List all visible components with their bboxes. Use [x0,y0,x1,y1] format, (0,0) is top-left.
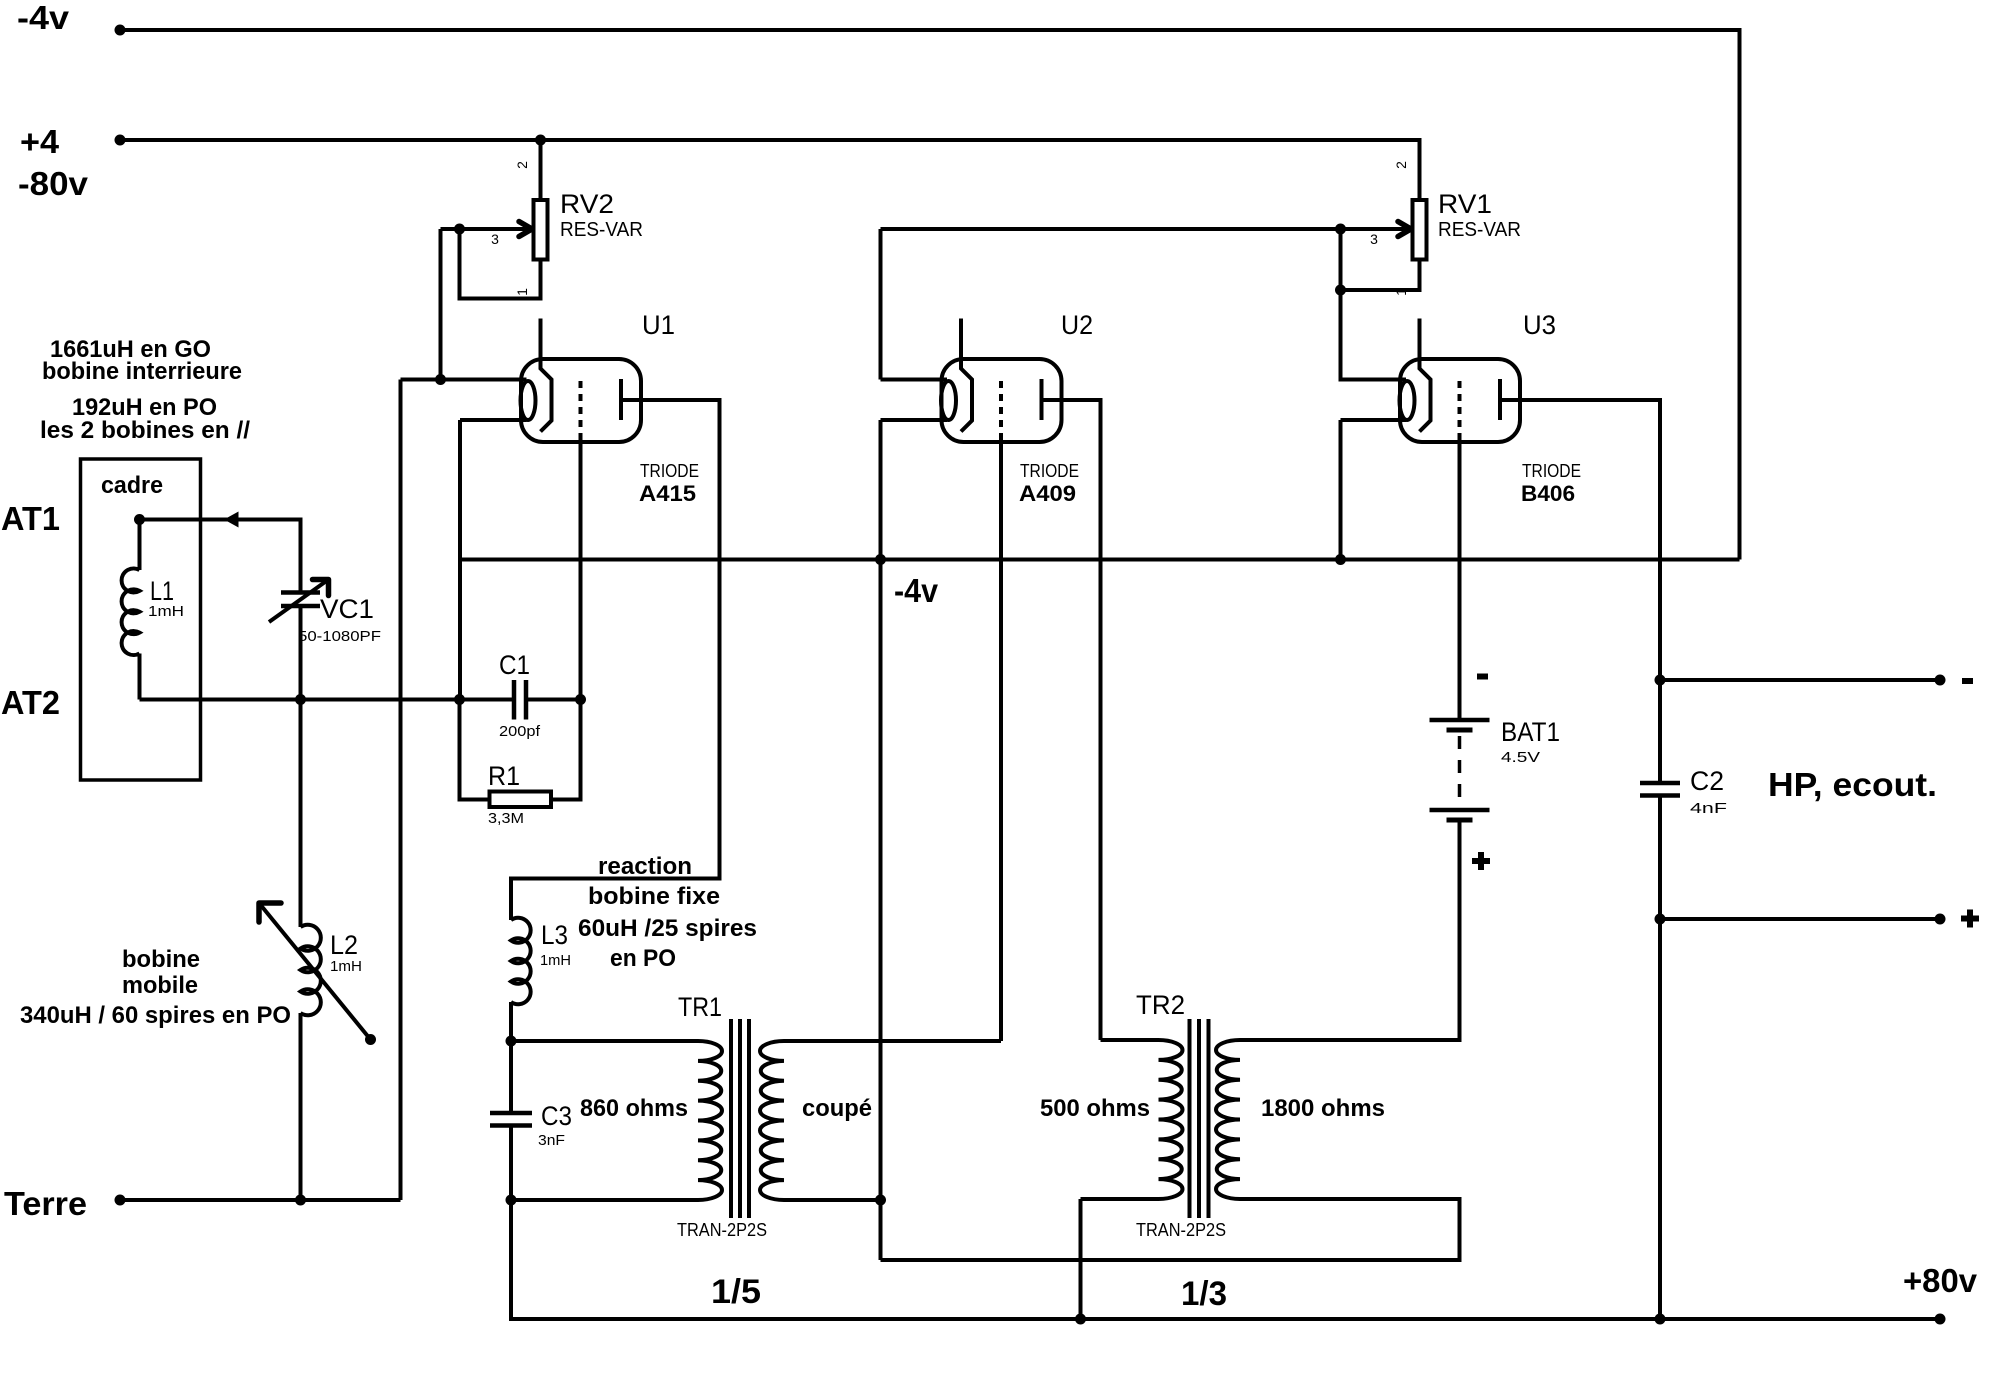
svg-text:R1: R1 [488,761,520,791]
wire: C3 bottom lead [509,1126,513,1201]
svg-text:TRIODE: TRIODE [1020,461,1079,481]
svg-text:+4: +4 [20,123,60,160]
wire: TR2 primary bottom to +80v bus [1079,1199,1083,1319]
svg-text:1mH: 1mH [148,603,184,620]
svg-text:cadre: cadre [101,472,163,499]
svg-text:U2: U2 [1061,310,1093,340]
svg-text:U3: U3 [1523,310,1556,340]
svg-text:860 ohms: 860 ohms [580,1095,688,1122]
terminal dot plus output [1935,914,1946,925]
AT1 arrowhead [224,512,239,528]
svg-text:bobine: bobine [122,946,200,973]
wire: BAT1 plus down to TR2 secondary top [1240,820,1460,1040]
svg-text:C1: C1 [499,650,530,680]
battery BAT1 plus sign [1472,852,1490,870]
inductor L2 (moving coil) [301,925,321,1200]
junction: L3 / TR1 primary top / C3 top [506,1036,517,1047]
junction: C1/R1 right node / U1 grid [575,694,586,705]
wire: RV2 wiper (pin 3) [441,227,529,231]
inductor L1 [122,520,140,700]
svg-text:2: 2 [1393,161,1409,169]
svg-text:RES-VAR: RES-VAR [560,219,643,241]
tube U1 (triode A415) [521,319,642,443]
terminal dot +80v [1935,1314,1946,1325]
junction: U1 filament / RV2 wiper / Terre riser [435,374,446,385]
svg-text:3: 3 [491,231,499,247]
svg-text:HP, ecout.: HP, ecout. [1768,766,1937,803]
svg-text:A415: A415 [639,481,696,506]
svg-text:AT1: AT1 [1,500,60,537]
svg-text:1/5: 1/5 [711,1273,761,1311]
wire: RV1 wiper line [881,227,1408,231]
terminal dot +4 [115,135,126,146]
junction: RV1 pin 1 node [1335,285,1346,296]
L2 variable arrow [259,903,371,1040]
wire: C3 top lead [509,1041,513,1113]
junction: L1 top [134,514,145,525]
wire: U1 grid down to C1/R1 [579,436,583,700]
svg-text:TRAN-2P2S: TRAN-2P2S [1136,1220,1226,1240]
wire: L1 top to AT1 node and VC1 [140,520,301,593]
svg-text:L1: L1 [150,576,174,606]
capacitor VC1 (variable) plates [281,593,320,607]
terminal dot Terre [115,1195,126,1206]
svg-text:RES-VAR: RES-VAR [1438,219,1521,241]
svg-text:-4v: -4v [894,572,939,609]
wire: U2 filament top to RV1 wiper [881,229,948,380]
svg-text:bobine fixe: bobine fixe [588,883,720,910]
svg-text:coupé: coupé [802,1095,872,1122]
junction: L2 bottom on Terre line [295,1195,306,1206]
svg-text:1/3: 1/3 [1181,1275,1227,1313]
wire: +80v bus [511,1200,1940,1319]
svg-text:L3: L3 [541,920,568,950]
svg-text:TR1: TR1 [678,992,722,1022]
tube U2 (triode A409) [941,319,1062,443]
svg-text:RV2: RV2 [560,189,614,219]
svg-text:C2: C2 [1690,766,1724,796]
plus output sign [1961,910,1979,928]
wire: C2 bottom lead down to +80v bus [1658,796,1662,1320]
junction: TR1 secondary bottom [875,1195,886,1206]
junction: C2 branch on +80v bus [1655,1314,1666,1325]
wire: U2 anode to TR2 primary [1042,400,1101,1040]
capacitor C1 plates [514,680,526,720]
TR2 core [1190,1019,1209,1218]
svg-text:mobile: mobile [122,972,198,999]
svg-text:1: 1 [514,288,530,296]
junction: C3 / TR1 primary bottom / +80v riser [506,1195,517,1206]
tube U3 (triode B406) [1400,319,1521,443]
junction: plus output node [1655,914,1666,925]
wire: VC1 bottom through AT2 node down to L2 [299,606,303,927]
TR2 secondary winding (1800 ohms) [881,1040,1460,1260]
junction: U2 filament on -4v rail [875,554,886,565]
TR1 primary winding (860 ohms) [511,1041,722,1200]
svg-text:bobine interrieure: bobine interrieure [42,358,242,385]
junction: RV2 pin2 on +4 bus [535,135,546,146]
svg-text:reaction: reaction [598,853,692,880]
wire: R1 loop right [551,700,581,800]
cadre frame box [81,459,201,780]
svg-text:+80v: +80v [1903,1262,1978,1299]
wire: RV1 pin 1 loop [1341,260,1420,291]
svg-text:AT2: AT2 [1,684,60,721]
wire: plus output line [1660,917,1940,921]
svg-text:les 2 bobines en //: les 2 bobines en // [40,417,250,444]
svg-text:TRAN-2P2S: TRAN-2P2S [677,1220,767,1240]
wire: U3 filament bottom to -4v rail [1341,420,1407,560]
wire: -4v top bus [120,30,1740,560]
wire: Terre riser (left long vertical) [399,380,403,1201]
svg-text:3: 3 [1370,231,1378,247]
svg-text:-80v: -80v [18,165,89,202]
svg-text:500 ohms: 500 ohms [1040,1095,1150,1122]
battery BAT1 cell 2 short plate [1447,818,1473,823]
TR1 core [731,1019,749,1218]
TR1 secondary winding (coupe) [760,1041,1001,1200]
wire: RV2 wiper down to U1 filament node [439,229,443,380]
svg-text:1800 ohms: 1800 ohms [1261,1095,1385,1122]
RV2 wiper arrowhead [519,222,532,237]
battery BAT1 cell 1 short plate [1447,728,1473,733]
svg-text:L2: L2 [330,930,358,960]
svg-text:TRIODE: TRIODE [1522,461,1581,481]
battery BAT1 cell 2 long plate [1430,808,1490,813]
svg-text:3,3M: 3,3M [488,810,524,827]
wire: U2 grid down to TR1 secondary top [999,436,1003,1041]
VC1 arrow [269,580,329,623]
svg-text:200pf: 200pf [499,723,541,740]
svg-text:U1: U1 [642,310,675,340]
wire: -4v rail [460,558,1740,562]
svg-text:A409: A409 [1019,481,1076,506]
svg-text:RV1: RV1 [1438,189,1492,219]
wire: C1 right plate to grid node [526,698,581,702]
junction: C1/R1 left node [454,694,465,705]
terminal dot -4v [115,25,126,36]
svg-text:4nF: 4nF [1690,800,1727,817]
svg-text:1mH: 1mH [330,958,362,975]
wire: U2 filament bottom to -4v rail and TR1 secondary [881,420,948,1260]
RV1 wiper arrowhead [1398,222,1411,237]
svg-text:B406: B406 [1521,481,1575,506]
wire: U1 filament bottom to -4v rail / AT2 node [460,420,527,700]
wire: RV2 pin 2 [539,140,543,200]
junction: RV1 wiper node [1335,224,1346,235]
resistor R1 body [490,792,552,808]
junction: U3 anode / C2 / minus output [1655,675,1666,686]
wire: R1 loop left [460,700,490,800]
battery BAT1 minus sign [1477,674,1488,680]
wire: U3 grid down to BAT1 minus [1458,436,1462,720]
svg-text:en PO: en PO [610,945,676,972]
svg-text:C3: C3 [541,1101,572,1131]
resistor RV2 body [534,200,548,260]
capacitor C2 plates [1640,783,1680,796]
svg-text:50-1080PF: 50-1080PF [298,628,381,645]
minus output sign [1962,678,1973,684]
wire: U3 anode to C2 node [1500,400,1660,680]
battery BAT1 cell 1 long plate [1430,718,1490,723]
svg-text:-4v: -4v [17,0,70,36]
inductor L3 [511,918,531,1041]
wire: RV1 wiper down to U3 filament top [1341,229,1407,380]
wire: U1 filament top to RV2/Terre node [401,378,527,382]
resistor RV1 body [1413,200,1427,260]
capacitor C3 plates [490,1113,532,1126]
svg-text:60uH /25 spires: 60uH /25 spires [578,915,757,942]
junction: RV2 pins 1+3 [454,224,465,235]
svg-text:3nF: 3nF [538,1132,565,1149]
TR2 primary winding (500 ohms) [1081,1040,1183,1199]
svg-text:VC1: VC1 [320,594,374,624]
battery BAT1 dashed middle [1458,736,1462,804]
svg-text:340uH / 60 spires en PO: 340uH / 60 spires en PO [20,1002,291,1029]
junction: TR2 primary bottom on +80v bus [1075,1314,1086,1325]
wire: U1 anode to reaction coil L3 [511,400,720,920]
wire: RV2 pin 1 loop to wiper [460,229,541,299]
svg-text:BAT1: BAT1 [1501,717,1560,747]
junction: U3 filament on -4v rail [1335,554,1346,565]
svg-text:2: 2 [514,161,530,169]
wire: Terre line [120,1198,401,1202]
junction: VC1/L2 on AT2 line [295,694,306,705]
svg-text:TR2: TR2 [1136,990,1185,1020]
svg-text:4.5V: 4.5V [1501,749,1540,766]
wire: minus output line [1660,678,1940,682]
wire: AT2 line from L1 bottom to C1 [140,698,515,702]
svg-text:Terre: Terre [4,1185,87,1222]
terminal dot minus output [1935,675,1946,686]
wire: C2 top lead [1658,680,1662,783]
svg-text:1mH: 1mH [540,952,571,969]
svg-text:TRIODE: TRIODE [640,461,699,481]
wire: +4 bus to RV1 pin 2 [120,140,1420,200]
